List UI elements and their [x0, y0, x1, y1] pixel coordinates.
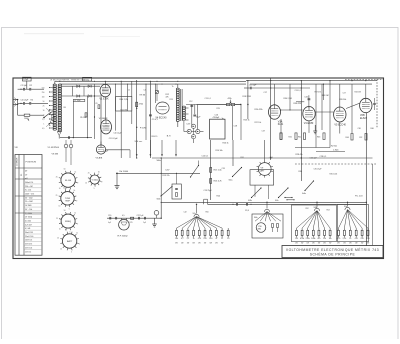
capacitor C10 [68, 136, 70, 139]
resistor row right-top [280, 133, 282, 140]
compensation box [172, 184, 181, 199]
svg-text:10: 10 [60, 249, 62, 251]
capacitor C2 [18, 88, 24, 90]
svg-text:R37 47k: R37 47k [315, 91, 322, 93]
svg-text:R52: R52 [306, 208, 309, 210]
svg-text:25 = 10M: 25 = 10M [25, 201, 33, 203]
selector fan F2 [255, 212, 281, 222]
svg-text:C2 2µF: C2 2µF [21, 85, 28, 87]
svg-text:V= 1,5k: V= 1,5k [25, 190, 31, 192]
svg-text:R9 1M: R9 1M [140, 94, 146, 96]
svg-text:50: 50 [64, 169, 66, 171]
wire [176, 173, 178, 184]
svg-text:5V ~ 50k: 5V ~ 50k [25, 209, 32, 211]
svg-text:C27: C27 [343, 93, 346, 95]
fan2 box [252, 214, 283, 238]
capacitor C15 [244, 87, 250, 89]
wire [339, 122, 341, 134]
svg-text:R4: R4 [31, 99, 33, 101]
switch S2b [252, 188, 262, 198]
wire [210, 140, 212, 200]
svg-text:250: 250 [42, 92, 45, 94]
svg-text:R44: R44 [346, 137, 349, 139]
svg-text:SCHÉMA DE PRINCIPE: SCHÉMA DE PRINCIPE [310, 252, 356, 257]
capacitor C31 [373, 102, 376, 104]
capacitor C22 [138, 217, 140, 220]
svg-text:50: 50 [43, 101, 45, 103]
svg-text:10k: 10k [329, 238, 332, 240]
svg-text:50: 50 [98, 172, 100, 174]
svg-text:R16 4,7k: R16 4,7k [214, 181, 222, 183]
horizontal wire y158 [152, 157, 200, 159]
svg-text:C35 25µF: C35 25µF [314, 169, 323, 171]
svg-text:47k: 47k [317, 238, 320, 240]
svg-text:C15 2µF: C15 2µF [249, 85, 257, 87]
wire [115, 84, 117, 131]
selector fan F1 [177, 217, 223, 229]
horizontal wire [295, 147, 330, 149]
svg-text:470k: 470k [139, 104, 143, 106]
svg-text:1k: 1k [193, 238, 195, 240]
svg-text:C12: C12 [189, 101, 192, 103]
svg-text:50: 50 [63, 187, 65, 189]
svg-text:R14 10k: R14 10k [216, 150, 223, 152]
svg-text:50Hz: 50Hz [157, 160, 161, 162]
svg-text:2: 2 [79, 244, 80, 246]
B+ rail [200, 157, 373, 159]
wire [232, 140, 234, 166]
wire [131, 81, 133, 124]
test point arrows [136, 140, 138, 156]
svg-text:25: 25 [56, 218, 58, 220]
svg-text:5: 5 [71, 252, 72, 254]
coupling wire lower [62, 95, 100, 97]
tube V2 [101, 120, 112, 134]
svg-text:2mV 10k: 2mV 10k [25, 247, 32, 249]
svg-text:R45 100k: R45 100k [330, 173, 338, 175]
svg-text:H.P. 600Ω: H.P. 600Ω [118, 236, 128, 238]
svg-text:4µF: 4µF [108, 222, 111, 224]
svg-text:COMMUT.: COMMUT. [17, 157, 19, 166]
wire [197, 105, 199, 130]
box R10 [116, 97, 132, 112]
capacitor C5 [29, 102, 31, 105]
wire [247, 81, 249, 119]
wire [156, 84, 158, 90]
svg-text:R18 2,2M: R18 2,2M [243, 96, 252, 98]
svg-text:470k: 470k [300, 238, 304, 240]
wire C9 branch [149, 81, 151, 158]
svg-text:25mV 500: 25mV 500 [25, 236, 33, 238]
svg-text:2,5: 2,5 [42, 119, 44, 121]
svg-text:V10: V10 [258, 226, 261, 228]
right bus 2 [250, 83, 372, 85]
switch S4a [305, 181, 314, 191]
svg-text:0,5: 0,5 [42, 128, 44, 130]
top bus [55, 80, 246, 82]
svg-text:500mV 2k: 500mV 2k [25, 182, 33, 184]
wire [197, 104, 227, 106]
attenuator ladder right column [58, 84, 61, 132]
svg-text:C4 0,1µF: C4 0,1µF [114, 133, 123, 135]
wire [329, 81, 331, 148]
svg-text:220k: 220k [306, 238, 310, 240]
rotary switch S3 [90, 175, 99, 184]
wire [17, 100, 19, 116]
svg-text:C12 0,5µF: C12 0,5µF [109, 138, 119, 140]
wire [72, 102, 74, 138]
ladder bottom arrow [57, 132, 61, 136]
step wire [203, 199, 205, 204]
svg-text:R42 1M: R42 1M [355, 91, 362, 93]
tube V7 [334, 107, 346, 122]
svg-text:R41: R41 [289, 137, 292, 139]
svg-text:50: 50 [64, 210, 66, 212]
box meter amp [210, 119, 225, 139]
svg-text:BATT: BATT [67, 240, 73, 243]
svg-text:R50: R50 [206, 211, 209, 213]
svg-text:100: 100 [209, 238, 212, 240]
switch S2a [233, 168, 242, 177]
rotary switch S4 T.INF [61, 192, 74, 205]
svg-text:25: 25 [56, 177, 58, 179]
svg-text:POSITION: POSITION [26, 162, 37, 164]
svg-text:2: 2 [77, 183, 78, 185]
svg-text:1k: 1k [76, 232, 78, 234]
tube V1 [100, 84, 111, 96]
wire [365, 84, 367, 98]
arrow [222, 117, 225, 119]
bridge rectifier [191, 124, 195, 128]
capacitor C9b arrow [88, 95, 90, 98]
capacitor C12 [190, 104, 193, 106]
svg-text:C19: C19 [262, 131, 265, 133]
svg-text:R43: R43 [317, 137, 320, 139]
svg-text:VR: VR [15, 147, 18, 149]
svg-text:C33: C33 [222, 168, 225, 170]
svg-text:470: 470 [355, 238, 358, 240]
svg-text:Tr 4µF: Tr 4µF [103, 150, 109, 152]
svg-text:R10 2,2M: R10 2,2M [120, 99, 129, 101]
capacitor C9 [149, 114, 152, 116]
svg-text:R8 470: R8 470 [152, 136, 158, 138]
svg-text:500: 500 [42, 87, 45, 89]
svg-text:B.Tr: B.Tr [167, 135, 171, 138]
input box C1 0,1uF [23, 77, 32, 81]
svg-text:PIL. 443: PIL. 443 [355, 196, 363, 198]
svg-text:1mV 1k: 1mV 1k [25, 251, 31, 253]
wire [154, 84, 156, 103]
svg-text:4,7: 4,7 [181, 238, 184, 240]
resistor row F3 [296, 230, 298, 235]
wire [87, 96, 89, 138]
wire [315, 111, 333, 113]
svg-text:C22 1µF: C22 1µF [137, 215, 145, 217]
svg-text:10 1MΩ: 10 1MΩ [25, 205, 32, 207]
svg-text:R5 10k: R5 10k [80, 117, 86, 119]
tube V3 [96, 145, 105, 154]
svg-text:25: 25 [43, 105, 45, 107]
svg-text:R25: R25 [130, 222, 133, 224]
wire [308, 95, 310, 108]
wire [315, 84, 317, 147]
bottom bus 2 [208, 203, 367, 205]
svg-text:R2 3Ω: R2 3Ω [331, 146, 337, 148]
svg-text:250 = 1M: 250 = 1M [25, 186, 33, 188]
svg-text:R38 1M: R38 1M [322, 95, 329, 97]
svg-text:10: 10 [58, 206, 60, 208]
svg-text:1k: 1k [74, 190, 76, 192]
svg-text:10: 10 [59, 188, 61, 190]
wire grid coupling [281, 109, 303, 111]
svg-text:100V ~ 47k: 100V ~ 47k [25, 194, 34, 196]
wire [254, 185, 256, 197]
svg-text:R31: R31 [241, 157, 244, 159]
svg-text:R26 1k: R26 1k [223, 143, 229, 145]
svg-text:5: 5 [69, 209, 70, 211]
resistor R16 [210, 179, 212, 184]
resistor R8 [98, 105, 100, 109]
wire [160, 158, 162, 202]
bridge box [250, 170, 274, 185]
svg-text:Rd 15000: Rd 15000 [120, 171, 130, 173]
resistor row F1b [227, 230, 229, 235]
bridge tube V9 [258, 163, 271, 176]
wire [104, 81, 106, 84]
top box C8 [83, 77, 92, 81]
wire B+ rail [270, 78, 272, 160]
svg-text:R13: R13 [170, 99, 173, 101]
rotary switch S2 EL.B4 [61, 173, 75, 187]
svg-text:V.S4Ω: V.S4Ω [92, 180, 99, 182]
svg-text:2,2k: 2,2k [343, 238, 347, 240]
svg-text:47k: 47k [166, 97, 169, 99]
svg-text:VOLTOHMMETRE ELECTRONIQUE MÉTR: VOLTOHMMETRE ELECTRONIQUE MÉTRIX 743 [286, 247, 379, 252]
wire ladder top [54, 81, 56, 84]
resistor R11 [136, 102, 138, 107]
svg-text:100k: 100k [311, 238, 315, 240]
wire [145, 84, 147, 140]
svg-text:C20: C20 [108, 215, 111, 217]
output wire [107, 217, 161, 219]
svg-text:0,1 kΩ: 0,1 kΩ [25, 228, 31, 230]
svg-text:5mV 47k: 5mV 47k [25, 244, 32, 246]
svg-text:2: 2 [77, 224, 78, 226]
transformer TR1 primary [176, 88, 179, 121]
svg-text:R53: R53 [327, 210, 330, 212]
svg-text:R20 470k: R20 470k [255, 109, 263, 111]
capacitor C4 [18, 102, 24, 104]
svg-text:C30: C30 [358, 128, 361, 130]
svg-text:LE MILLIVOLTMETRE - TENSION CO: LE MILLIVOLTMETRE - TENSION CONT. [50, 79, 86, 81]
wire [127, 84, 129, 111]
wire [372, 164, 374, 246]
svg-text:10: 10 [227, 238, 229, 240]
coupling wire upper [62, 85, 100, 87]
wire [308, 121, 310, 133]
svg-text:V1 43/PN.B: V1 43/PN.B [48, 147, 60, 149]
svg-text:EL.B4: EL.B4 [65, 180, 72, 182]
label C7 box [73, 99, 85, 101]
svg-text:R24: R24 [217, 195, 220, 197]
svg-text:2: 2 [102, 181, 103, 183]
svg-text:C28 0,5: C28 0,5 [320, 156, 327, 158]
svg-text:0,1µF: 0,1µF [23, 79, 29, 81]
svg-text:C32: C32 [359, 137, 362, 139]
svg-text:R2: R2 [30, 85, 32, 87]
svg-text:0,5: 0,5 [122, 215, 125, 217]
heater wire y173 [116, 172, 200, 174]
selector box F3 [292, 205, 337, 242]
svg-text:1k: 1k [75, 172, 77, 174]
selector box F4 [338, 205, 369, 242]
svg-text:R34 2,2M: R34 2,2M [284, 98, 293, 100]
wire [321, 84, 323, 130]
ladder taps [50, 88, 54, 129]
svg-text:R22 10k: R22 10k [255, 122, 262, 124]
transformer TR1 secondary [182, 106, 185, 120]
svg-text:1k: 1k [349, 238, 351, 240]
top bus 2 [60, 83, 246, 85]
svg-text:2,2: 2,2 [187, 238, 190, 240]
resistor R1 1M [18, 114, 25, 116]
wire [264, 140, 266, 163]
svg-text:220: 220 [203, 238, 206, 240]
resistor R25 [131, 217, 134, 219]
svg-text:C13 0,1: C13 0,1 [205, 98, 211, 100]
wire [365, 202, 367, 246]
switch S1b [161, 187, 172, 197]
wire [71, 86, 73, 96]
svg-text:25: 25 [56, 195, 58, 197]
svg-text:R6: R6 [64, 107, 66, 109]
svg-text:25: 25 [57, 238, 59, 240]
svg-text:2,5 500k: 2,5 500k [25, 213, 32, 215]
svg-text:V9 4/B: V9 4/B [52, 154, 59, 156]
svg-text:V5 ECC40: V5 ECC40 [334, 123, 346, 126]
svg-text:C19 25µF: C19 25µF [204, 190, 213, 192]
horizontal wire [316, 151, 345, 153]
svg-text:4,7k: 4,7k [337, 238, 341, 240]
svg-text:C6: C6 [128, 89, 130, 91]
wire [240, 105, 242, 141]
svg-text:NE2: NE2 [258, 229, 262, 231]
wire [100, 95, 102, 146]
svg-text:100: 100 [42, 96, 45, 98]
tube V8 EL822 [360, 98, 372, 112]
wire [160, 202, 162, 218]
tube V4 ECC40 [156, 102, 169, 114]
rotary switch S6 BATT [62, 234, 76, 248]
schematic frame [13, 78, 384, 259]
wire [289, 84, 291, 110]
capacitor C13 [193, 114, 196, 116]
svg-text:S.M. sec: S.M. sec [135, 141, 143, 143]
switch S2c [279, 188, 289, 198]
ground amp [314, 125, 316, 131]
legend table [15, 155, 42, 256]
svg-text:100: 100 [366, 238, 369, 240]
svg-text:C9: C9 [95, 103, 97, 105]
transformer TR1 core [180, 89, 182, 121]
wire [26, 81, 28, 89]
svg-text:Tr: Tr [172, 85, 174, 88]
bottom-left wire [60, 137, 92, 139]
svg-text:R19: R19 [217, 108, 220, 110]
svg-text:2: 2 [76, 201, 77, 203]
wire left column [94, 84, 96, 139]
svg-text:R36 470k: R36 470k [294, 103, 302, 105]
resistor R15 [210, 168, 212, 173]
svg-text:S4b: S4b [254, 217, 257, 219]
svg-text:R42: R42 [298, 137, 301, 139]
svg-text:1k: 1k [74, 213, 76, 215]
svg-text:10: 10 [59, 229, 61, 231]
capacitor C3 [29, 88, 31, 91]
wire [177, 84, 179, 88]
output jack [154, 211, 159, 216]
svg-text:V1 FEBR: V1 FEBR [99, 118, 108, 120]
svg-text:C18: C18 [234, 125, 237, 127]
svg-text:1M: 1M [295, 238, 298, 240]
svg-text:22: 22 [221, 238, 223, 240]
svg-text:22k: 22k [323, 238, 326, 240]
wire R11 branch [136, 80, 138, 158]
switch S1a fan [48, 109, 54, 126]
svg-text:F 50Hz: F 50Hz [140, 128, 146, 130]
svg-text:+150: +150 [269, 157, 273, 159]
svg-text:C24 0,1: C24 0,1 [295, 90, 301, 92]
svg-text:R30: R30 [299, 171, 302, 173]
svg-text:5: 5 [69, 232, 70, 234]
wire [120, 81, 122, 158]
svg-text:10: 10 [43, 110, 45, 112]
input jack J1 [13, 99, 18, 101]
svg-text:470k: 470k [228, 98, 232, 100]
fan2 resistors [272, 224, 274, 228]
svg-text:C42: C42 [184, 211, 187, 213]
svg-text:220: 220 [361, 238, 364, 240]
bottom bus [161, 201, 366, 203]
selector fan F3 [297, 211, 331, 229]
right bus [246, 80, 377, 82]
trimmer [155, 90, 158, 93]
wire [185, 107, 188, 109]
contact dots [285, 197, 292, 199]
potentiometer P1 470k [227, 103, 230, 105]
svg-text:50 ~ 2kΩ: 50 ~ 2kΩ [25, 197, 33, 199]
svg-text:50: 50 [65, 229, 67, 231]
wire diag [346, 103, 359, 108]
svg-text:R15 1,5k: R15 1,5k [214, 170, 222, 172]
dashed mid divider [295, 163, 377, 165]
selector fan F4 [339, 210, 369, 229]
svg-text:V4 ECC40: V4 ECC40 [156, 117, 168, 119]
fan2 tube [256, 223, 266, 233]
capacitor C6 arrow [77, 85, 79, 88]
svg-text:C17: C17 [264, 92, 267, 94]
svg-text:C7 47pF: C7 47pF [74, 100, 80, 102]
svg-text:1: 1 [43, 123, 44, 125]
wire [274, 84, 276, 105]
svg-text:10k: 10k [175, 238, 178, 240]
svg-text:R40: R40 [371, 128, 374, 130]
svg-text:5: 5 [43, 114, 44, 116]
svg-text:R13 22k: R13 22k [163, 175, 170, 177]
switch S4c [191, 166, 199, 178]
svg-text:10mV 2k: 10mV 2k [25, 240, 32, 242]
svg-text:FREQ: FREQ [65, 221, 71, 223]
